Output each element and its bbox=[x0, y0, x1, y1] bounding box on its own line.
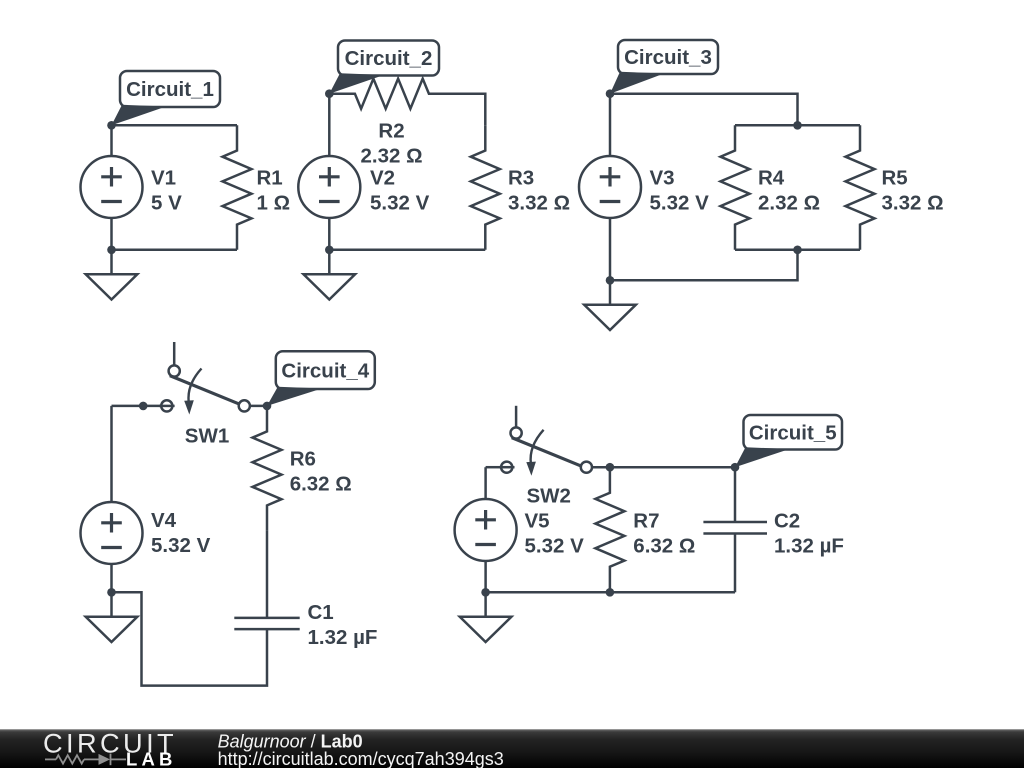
wire C5 top bus bbox=[592, 466, 735, 469]
wire C3 parallel bottom bar bbox=[735, 249, 860, 252]
switch SW2 action arrow bbox=[531, 430, 544, 464]
resistor R1 bbox=[223, 125, 252, 250]
capacitor C1 bbox=[234, 617, 299, 620]
svg-text:2.32 Ω: 2.32 Ω bbox=[360, 145, 422, 168]
wire C1 source bottom lead bbox=[110, 218, 113, 250]
voltage source V3 bbox=[579, 156, 641, 218]
wire C1 cap bottom return bbox=[112, 592, 268, 685]
ground C4 bbox=[110, 592, 113, 617]
svg-text:1.32 µF: 1.32 µF bbox=[308, 626, 378, 649]
switch SW2 open terminal bbox=[501, 462, 512, 473]
node C1 bottom junction bbox=[107, 246, 116, 255]
resistor R4 bbox=[721, 125, 750, 250]
callout Circuit_4 bbox=[267, 387, 322, 406]
wire C1 bottom bus bbox=[112, 249, 238, 252]
wire C3 top bus bbox=[610, 94, 798, 126]
capacitor C2 bbox=[703, 521, 767, 524]
wire SW1 pole to node bbox=[250, 405, 267, 408]
wire C5 left top bbox=[486, 466, 502, 469]
ground C3 bbox=[609, 280, 612, 305]
svg-text:Circuit_2: Circuit_2 bbox=[345, 47, 433, 70]
svg-text:5.32 V: 5.32 V bbox=[650, 192, 710, 215]
svg-text:1.32 µF: 1.32 µF bbox=[774, 534, 844, 557]
svg-text:R5: R5 bbox=[882, 167, 908, 190]
svg-text:R3: R3 bbox=[508, 167, 534, 190]
ground C1 bbox=[110, 250, 113, 274]
wire C3 source top lead bbox=[609, 94, 612, 156]
svg-text:5.32 V: 5.32 V bbox=[525, 534, 585, 557]
voltage source V4 bbox=[81, 502, 143, 564]
wire C1 source top lead bbox=[110, 125, 113, 156]
svg-text:V3: V3 bbox=[650, 167, 675, 190]
svg-text:3.32 Ω: 3.32 Ω bbox=[508, 192, 570, 215]
svg-text:1 Ω: 1 Ω bbox=[257, 192, 291, 215]
node C4 ground node bbox=[107, 588, 116, 597]
wire C2 cap bottom lead bbox=[734, 534, 737, 593]
svg-text:LAB: LAB bbox=[126, 748, 177, 768]
svg-text:R4: R4 bbox=[758, 167, 785, 190]
node C1 top junction bbox=[107, 121, 116, 130]
svg-text:R7: R7 bbox=[633, 509, 659, 532]
resistor R7 bbox=[595, 467, 624, 592]
node C2 bottom junction bbox=[325, 246, 334, 255]
svg-text:V2: V2 bbox=[370, 167, 395, 190]
logo wire-diode glyph bbox=[45, 754, 126, 766]
switch SW1 open terminal bbox=[161, 400, 172, 411]
node C4 left wire junction bbox=[139, 402, 148, 411]
node C3 bottom parallel junction bbox=[793, 246, 802, 255]
node C5 ground node bbox=[481, 588, 490, 597]
node C4 switch output bbox=[263, 402, 272, 411]
svg-text:5.32 V: 5.32 V bbox=[370, 192, 430, 215]
switch SW1 throw terminal bbox=[169, 365, 180, 376]
callout Circuit_3 bbox=[610, 72, 664, 94]
node C5 R7 bottom junction bbox=[606, 588, 615, 597]
switch SW2 throw terminal bbox=[510, 427, 521, 438]
node C5 R7 top junction bbox=[606, 463, 615, 472]
voltage source V1 bbox=[81, 156, 143, 218]
wire C1 top bus bbox=[112, 124, 238, 127]
resistor R2 (horizontal) bbox=[329, 79, 454, 109]
footer bar bbox=[0, 729, 1024, 768]
wire C2 source top lead bbox=[328, 94, 331, 156]
node C5 C2 top node bbox=[731, 463, 740, 472]
resistor R5 bbox=[846, 125, 875, 250]
svg-text:V5: V5 bbox=[525, 509, 550, 532]
callout Circuit_2 bbox=[329, 73, 384, 93]
ground C2 bbox=[328, 250, 331, 274]
wire C5 source top lead bbox=[484, 467, 487, 499]
wire C4 source top lead bbox=[110, 406, 113, 502]
node C2 top junction bbox=[325, 89, 334, 98]
switch SW2 blade bbox=[512, 438, 582, 467]
svg-text:6.32 Ω: 6.32 Ω bbox=[290, 472, 352, 495]
wire C3 source bottom lead bbox=[609, 218, 612, 280]
svg-text:3.32 Ω: 3.32 Ω bbox=[882, 192, 944, 215]
switch SW1 pole terminal bbox=[239, 400, 250, 411]
voltage source V2 bbox=[298, 156, 360, 218]
svg-text:5.32 V: 5.32 V bbox=[151, 534, 211, 557]
wire C2 source bottom lead bbox=[328, 218, 331, 250]
svg-text:Circuit_1: Circuit_1 bbox=[126, 78, 214, 101]
svg-text:V1: V1 bbox=[151, 167, 176, 190]
node C3 top node bbox=[606, 89, 615, 98]
svg-text:Circuit_4: Circuit_4 bbox=[281, 359, 369, 382]
svg-text:SW1: SW1 bbox=[185, 424, 229, 447]
wire C2 bottom bus bbox=[329, 249, 485, 252]
callout Circuit_5 bbox=[735, 447, 790, 467]
wire SW2 top stub bbox=[515, 406, 518, 428]
wire C5 source bottom lead bbox=[484, 561, 487, 592]
switch SW1 action arrow bbox=[188, 369, 201, 403]
svg-text:R1: R1 bbox=[257, 167, 283, 190]
svg-text:C2: C2 bbox=[774, 509, 800, 532]
wire C3 parallel top bar bbox=[735, 124, 860, 127]
node C3 bottom node bbox=[606, 276, 615, 285]
svg-text:SW2: SW2 bbox=[527, 485, 571, 508]
callout Circuit_1 bbox=[112, 105, 167, 126]
switch SW1 blade bbox=[170, 376, 240, 405]
svg-text:Circuit_5: Circuit_5 bbox=[749, 421, 837, 444]
svg-text:http://circuitlab.com/cycq7ah3: http://circuitlab.com/cycq7ah394gs3 bbox=[218, 749, 504, 768]
wire C2 cap top lead bbox=[734, 467, 737, 522]
svg-text:2.32 Ω: 2.32 Ω bbox=[758, 192, 820, 215]
wire C4 source bottom lead bbox=[110, 564, 113, 592]
wire C4 left top bbox=[112, 405, 162, 408]
svg-text:C1: C1 bbox=[308, 601, 334, 624]
voltage source V5 bbox=[455, 499, 517, 561]
svg-text:V4: V4 bbox=[151, 509, 177, 532]
svg-text:6.32 Ω: 6.32 Ω bbox=[633, 534, 695, 557]
resistor R3 bbox=[471, 125, 500, 250]
ground C5 bbox=[484, 592, 487, 617]
wire C5 bottom bus bbox=[486, 591, 735, 594]
svg-text:Circuit_3: Circuit_3 bbox=[624, 46, 712, 69]
wire C2 top right bbox=[455, 94, 486, 126]
resistor R6 bbox=[253, 406, 282, 531]
wire C3 bottom drop bbox=[610, 250, 798, 280]
node C3 top junction bbox=[793, 121, 802, 130]
svg-text:5 V: 5 V bbox=[151, 192, 182, 215]
wire R6 to C1 cap bbox=[266, 531, 269, 618]
wire SW1 top stub bbox=[173, 342, 176, 365]
svg-text:R2: R2 bbox=[378, 120, 404, 143]
switch SW2 pole terminal bbox=[581, 462, 592, 473]
svg-text:R6: R6 bbox=[290, 447, 316, 470]
